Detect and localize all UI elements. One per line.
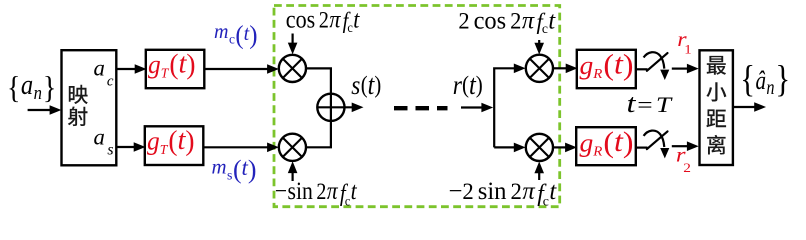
svg-text:a: a xyxy=(94,55,105,80)
char 距 xyxy=(706,109,726,127)
label r_2 xyxy=(676,143,691,175)
wire m_c to multiplier xyxy=(204,68,268,70)
svg-text:(: ( xyxy=(361,71,368,98)
adder xyxy=(317,94,344,121)
multiplier upper-right xyxy=(526,55,553,82)
svg-text:t: t xyxy=(549,178,557,205)
svg-text:s: s xyxy=(107,142,113,159)
wire output arrow xyxy=(733,106,755,108)
wire multipliers to adder xyxy=(306,68,331,147)
block mapping box xyxy=(62,50,117,165)
wire sampler to decision (r_2) xyxy=(672,145,688,147)
sampler switch top xyxy=(636,68,648,70)
label 2cos 2pi f_c t xyxy=(458,7,556,36)
svg-text:R: R xyxy=(592,67,602,83)
svg-text:): ) xyxy=(248,155,257,184)
char 小 xyxy=(706,82,726,101)
svg-text:−: − xyxy=(449,178,463,205)
svg-text:): ) xyxy=(623,47,634,81)
svg-text:g: g xyxy=(148,50,161,79)
svg-text:(: ( xyxy=(462,71,469,98)
svg-text:): ) xyxy=(186,48,195,79)
char 离 xyxy=(707,135,726,155)
svg-text:m: m xyxy=(214,21,228,43)
char 最 xyxy=(707,56,726,75)
svg-text:2: 2 xyxy=(458,8,469,33)
multiplier lower-right xyxy=(526,134,553,161)
svg-text:): ) xyxy=(249,21,257,50)
svg-text:2: 2 xyxy=(510,8,521,33)
svg-text:2: 2 xyxy=(683,161,691,176)
svg-text:): ) xyxy=(623,125,634,159)
svg-text:−: − xyxy=(275,178,287,206)
svg-text:cos: cos xyxy=(474,7,507,34)
svg-text:π: π xyxy=(327,178,339,206)
svg-text:c: c xyxy=(347,19,353,35)
modulator dashed boundary (green) xyxy=(274,6,560,207)
svg-text:t: t xyxy=(627,90,637,118)
wire to g_R top xyxy=(553,67,567,69)
svg-text:s: s xyxy=(227,168,232,183)
svg-text:g: g xyxy=(580,51,594,80)
node {a-hat_n} output label xyxy=(740,59,790,101)
node {a_n} input label xyxy=(7,69,56,105)
label m_c(t) xyxy=(214,21,257,50)
block g_T(t) bottom xyxy=(145,126,204,165)
svg-text:(: ( xyxy=(603,125,614,159)
block minimum-distance decision xyxy=(700,50,733,165)
svg-text:m: m xyxy=(212,154,227,178)
channel dashed line xyxy=(394,106,448,110)
arrow r(t) into junction xyxy=(461,106,482,108)
svg-text:a: a xyxy=(21,70,33,101)
label a_s xyxy=(94,124,114,158)
svg-text:R: R xyxy=(592,144,602,160)
label r(t) xyxy=(453,70,483,101)
svg-text:(: ( xyxy=(235,21,243,50)
block g_T(t) top xyxy=(146,50,205,88)
wire sampler to decision (r_1) xyxy=(672,67,688,69)
arrow -sin into multiplier xyxy=(292,172,294,182)
svg-text:): ) xyxy=(374,71,381,98)
label -sin 2pi f_c t xyxy=(275,178,357,209)
svg-text:=: = xyxy=(637,93,652,117)
adder output arrow xyxy=(317,106,352,108)
svg-text:t: t xyxy=(548,7,556,34)
svg-text:): ) xyxy=(185,125,194,156)
svg-text:2: 2 xyxy=(319,7,329,32)
svg-text:g: g xyxy=(580,128,594,157)
svg-text:2: 2 xyxy=(316,179,326,205)
svg-text:π: π xyxy=(522,178,536,205)
svg-text:g: g xyxy=(147,126,160,155)
wire a_c to g_T xyxy=(116,68,135,70)
sampler switch bottom xyxy=(636,147,648,149)
svg-text:c: c xyxy=(345,193,351,209)
svg-text:2: 2 xyxy=(462,179,473,204)
wire input arrow xyxy=(28,109,51,111)
block g_R(t) top xyxy=(577,50,636,88)
svg-text:sin: sin xyxy=(288,178,314,206)
svg-text:{: { xyxy=(7,69,20,105)
svg-text:π: π xyxy=(522,7,535,34)
svg-text:2: 2 xyxy=(511,179,522,204)
svg-text:): ) xyxy=(476,71,483,98)
svg-text:n: n xyxy=(34,82,42,103)
svg-text:r: r xyxy=(453,71,462,101)
svg-text:T: T xyxy=(161,65,170,80)
svg-text:â: â xyxy=(755,67,766,96)
label t = T xyxy=(627,90,674,118)
svg-text:a: a xyxy=(94,124,105,149)
arrow 2cos into multiplier xyxy=(538,40,540,44)
junction wire to lower-right multiplier xyxy=(494,146,514,148)
svg-text:s: s xyxy=(351,72,360,101)
svg-text:c: c xyxy=(229,31,235,46)
multiplier upper-left xyxy=(279,55,306,82)
svg-text:}: } xyxy=(775,59,790,101)
label -2sin 2pi f_c t xyxy=(449,178,558,210)
svg-text:T: T xyxy=(656,93,674,117)
svg-text:(: ( xyxy=(603,47,614,81)
svg-text:(: ( xyxy=(168,125,177,156)
arrow -2sin into multiplier xyxy=(538,172,540,180)
label r_1 xyxy=(677,27,692,57)
svg-text:sin: sin xyxy=(478,178,507,205)
svg-text:t: t xyxy=(351,178,357,206)
arrow cos into multiplier xyxy=(292,34,294,44)
label cos 2pi f_c t xyxy=(286,6,361,35)
svg-text:T: T xyxy=(160,142,169,157)
svg-text:c: c xyxy=(543,194,549,209)
wire a_s to g_T xyxy=(116,146,134,148)
wire to g_R bottom xyxy=(553,146,566,148)
wire m_s to multiplier xyxy=(203,146,268,148)
svg-text:π: π xyxy=(329,6,341,34)
label m_s(t) xyxy=(212,154,257,183)
svg-text:1: 1 xyxy=(684,43,691,57)
svg-text:(: ( xyxy=(233,155,242,184)
svg-text:n: n xyxy=(766,76,774,98)
block g_R(t) bottom xyxy=(576,127,636,165)
svg-text:{: { xyxy=(740,59,755,101)
junction wire to upper-right multiplier xyxy=(494,68,514,147)
svg-text:cos: cos xyxy=(286,6,315,34)
label a_c xyxy=(94,55,114,89)
svg-text:c: c xyxy=(542,21,548,36)
char 映 xyxy=(69,85,88,104)
svg-text:c: c xyxy=(107,74,114,90)
svg-text:}: } xyxy=(43,69,56,105)
svg-text:(: ( xyxy=(169,48,178,79)
char 射 xyxy=(68,107,88,127)
multiplier lower-left xyxy=(279,134,306,161)
label s(t) xyxy=(351,70,381,101)
